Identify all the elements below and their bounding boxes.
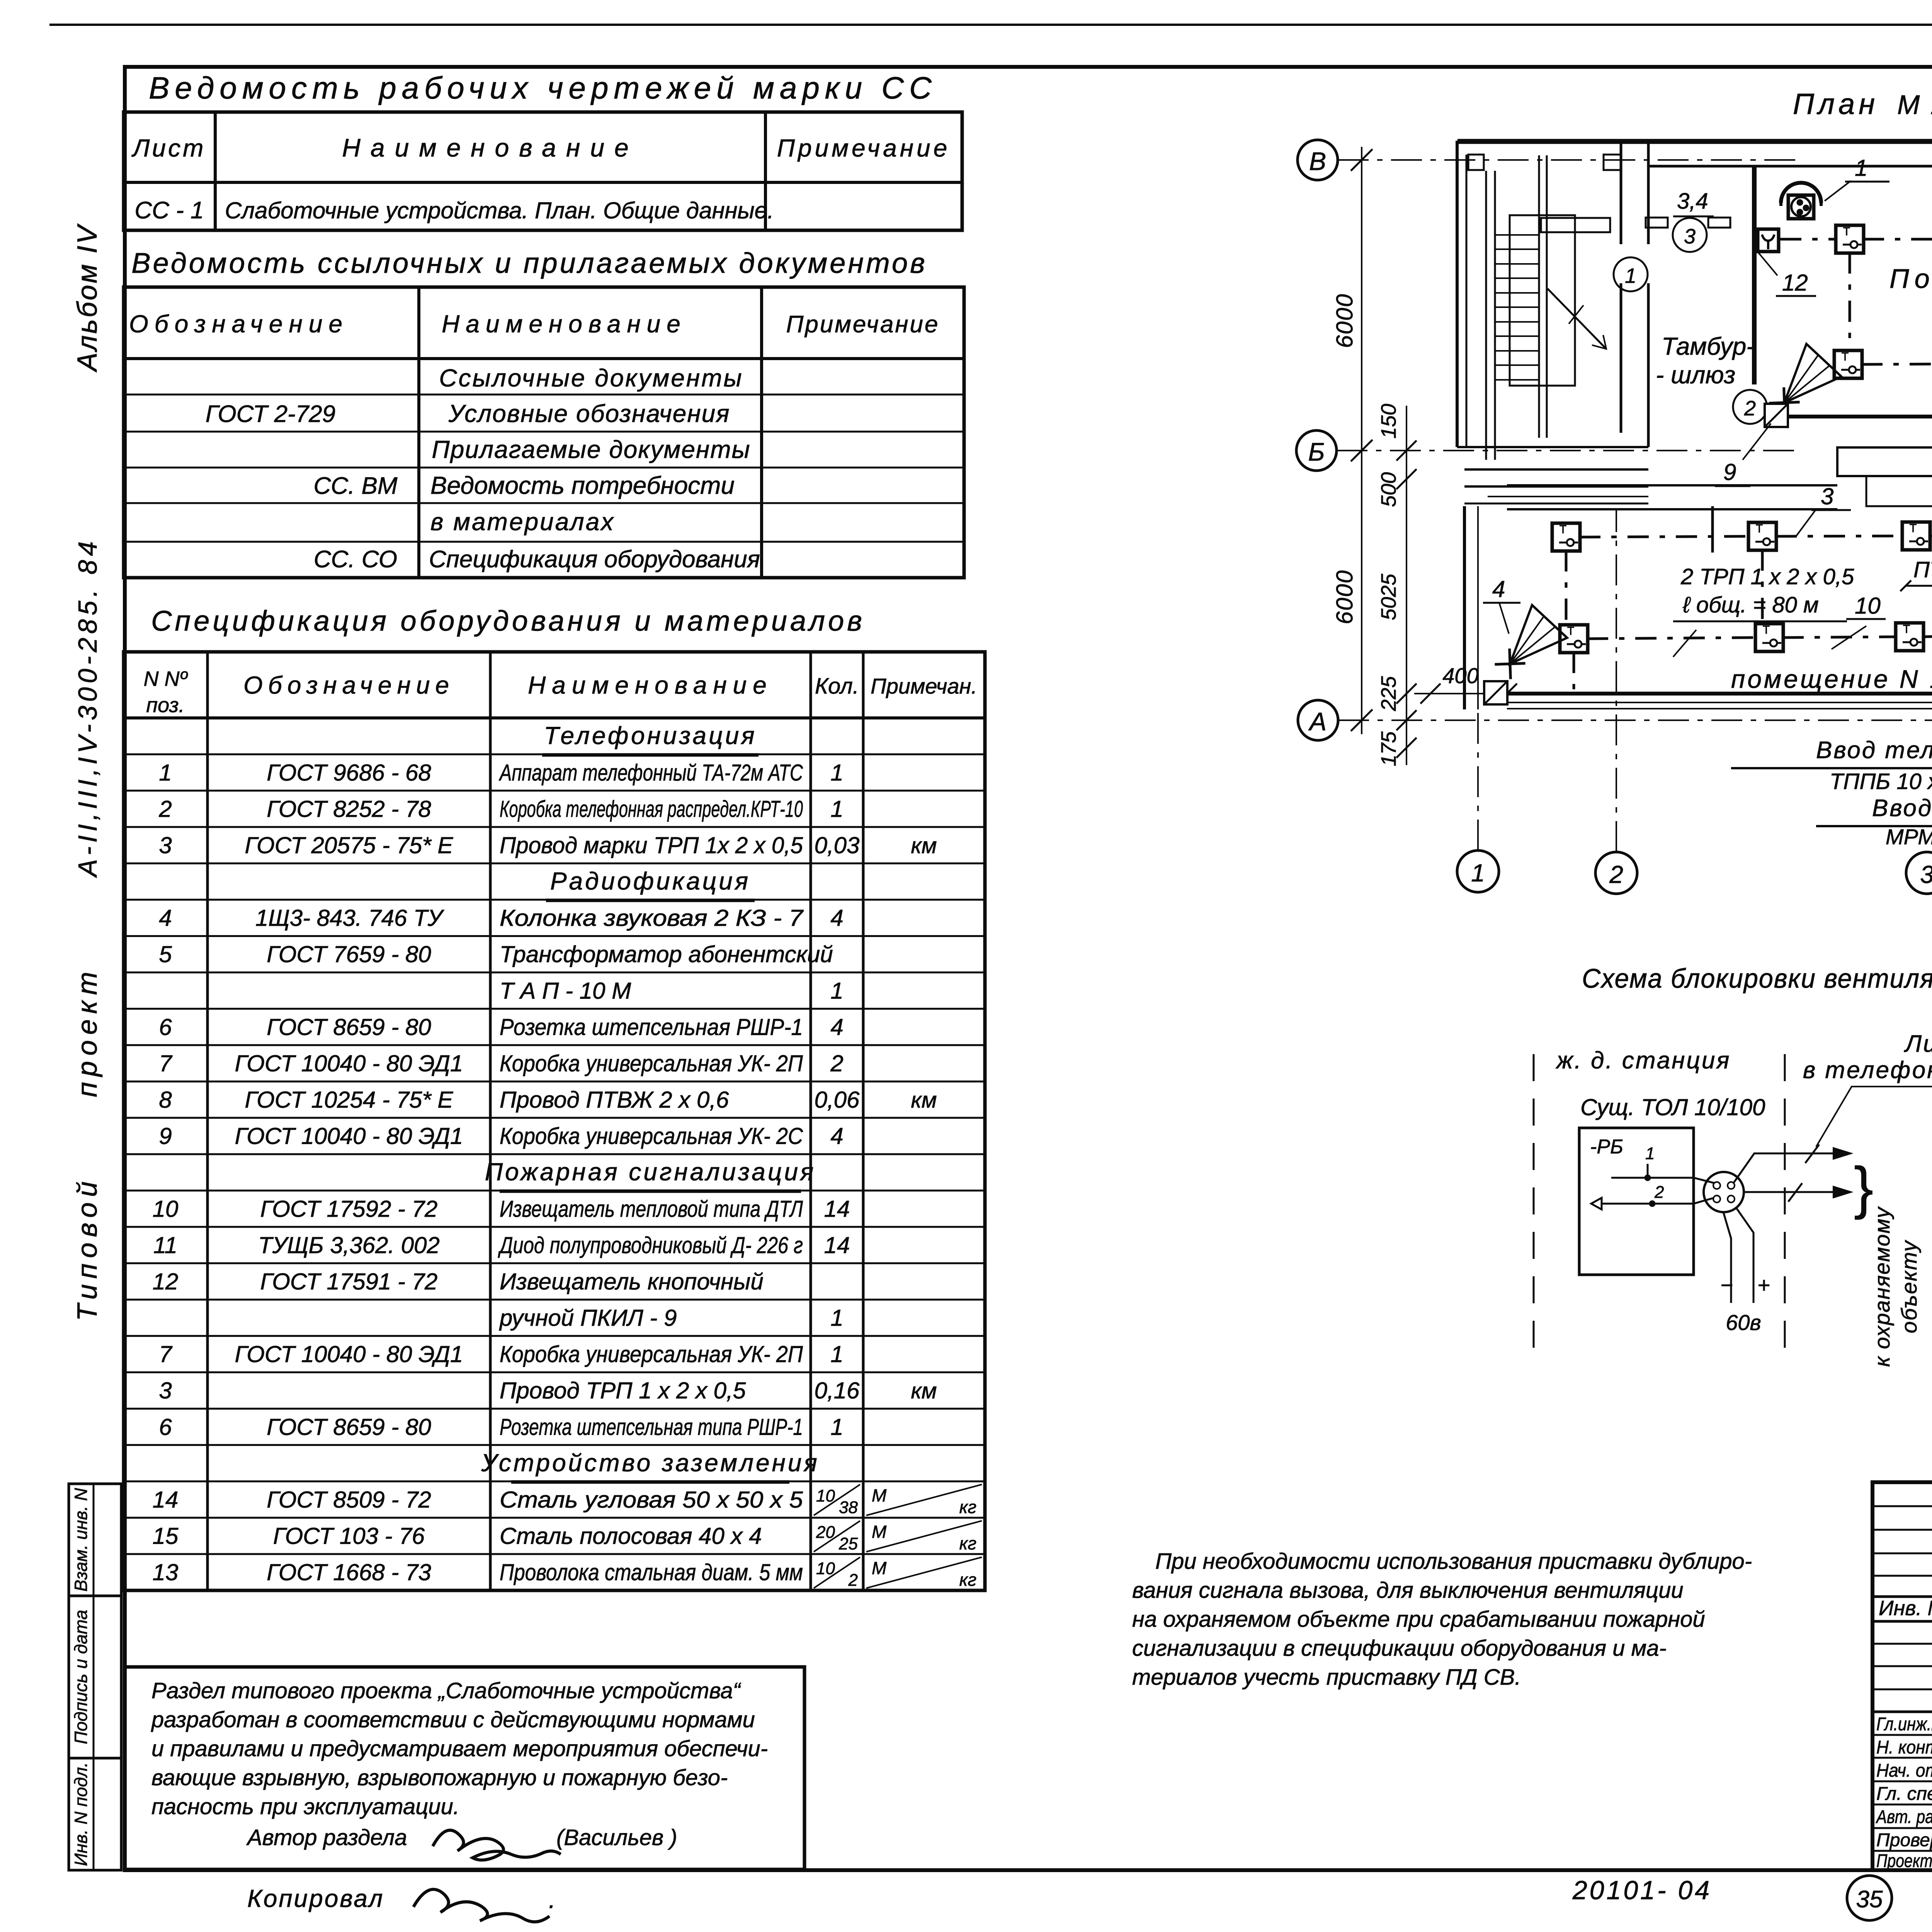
room N2 left wall [1752, 167, 1757, 384]
svg-text:Спецификация оборудования: Спецификация оборудования [429, 546, 760, 573]
svg-text:Слаботочные устройства. План.: Слаботочные устройства. План. Общие данн… [225, 197, 774, 223]
svg-text:ТППБ 10 х 2 х 0, 4: ТППБ 10 х 2 х 0, 4 [1830, 769, 1932, 794]
svg-text:Сталь полосовая 40 х 4: Сталь полосовая 40 х 4 [500, 1523, 762, 1549]
svg-text:Т: Т [1763, 624, 1770, 636]
wire [1776, 536, 1903, 536]
circled 35 [1847, 1876, 1892, 1920]
svg-text:СС - 1: СС - 1 [134, 197, 204, 224]
axis 1 circle [1457, 850, 1499, 892]
svg-text:поз.: поз. [146, 694, 184, 717]
door circle 3 [1673, 218, 1707, 252]
svg-text:ПТВЖ 2 х 0,6 - 60 м: ПТВЖ 2 х 0,6 - 60 м [1913, 557, 1932, 582]
svg-text:Обозначение: Обозначение [129, 310, 349, 338]
wire vertical from T8 [1761, 549, 1764, 623]
svg-text:кг: кг [959, 1533, 976, 1553]
svg-text:14: 14 [153, 1486, 179, 1512]
svg-text:−: − [1720, 1273, 1733, 1297]
svg-text:ТУЩБ 3,362. 002: ТУЩБ 3,362. 002 [258, 1232, 440, 1258]
svg-text:км: км [911, 1378, 937, 1403]
svg-text:1: 1 [1625, 264, 1636, 287]
svg-text:1: 1 [830, 796, 843, 822]
title block outer [1872, 1482, 1932, 1870]
svg-text:к охраняемому: к охраняемому [1870, 1206, 1894, 1367]
detector box T11 [1755, 624, 1783, 651]
station box TOL [1579, 1128, 1694, 1275]
svg-text:Наименование: Наименование [342, 133, 639, 162]
svg-text:Обозначение: Обозначение [243, 671, 454, 699]
leader 4 bottom-left [1499, 603, 1509, 634]
svg-text:Провод ТРП 1 х 2 х 0,5: Провод ТРП 1 х 2 х 0,5 [500, 1378, 746, 1403]
svg-text:ручной ПКИЛ - 9: ручной ПКИЛ - 9 [499, 1305, 677, 1331]
svg-text:1: 1 [1471, 859, 1485, 887]
junction box UK 2 [1765, 404, 1788, 427]
axis 3 circle [1906, 852, 1932, 894]
svg-text:Примечание: Примечание [777, 134, 951, 162]
svg-text:Розетка штепсельная РШР-1: Розетка штепсельная РШР-1 [500, 1014, 803, 1040]
svg-text:и правилами и предусматрива: и правилами и предусматривает мероприяти… [151, 1736, 768, 1761]
dim line vertical outer [1361, 147, 1362, 734]
svg-text:3: 3 [1920, 861, 1932, 888]
svg-text:6000: 6000 [1332, 570, 1357, 624]
svg-text:2: 2 [158, 796, 172, 822]
svg-text:ГОСТ 17591 - 72: ГОСТ 17591 - 72 [260, 1269, 438, 1294]
svg-text:5: 5 [159, 941, 172, 967]
svg-text:9: 9 [1723, 459, 1736, 485]
wire [1929, 535, 1932, 537]
detector box T9 [1902, 522, 1930, 550]
svg-text:М: М [872, 1485, 887, 1505]
svg-text:Извещатель тепловой типа ДТЛ: Извещатель тепловой типа ДТЛ [500, 1196, 803, 1222]
svg-text:35: 35 [1856, 1886, 1883, 1913]
svg-text:2: 2 [1654, 1183, 1664, 1202]
svg-text:2: 2 [1609, 861, 1623, 888]
svg-text:ГОСТ 103 - 76: ГОСТ 103 - 76 [273, 1523, 425, 1549]
svg-text:Коробка универсальная УК- 2С: Коробка универсальная УК- 2С [500, 1123, 803, 1149]
svg-text:Сущ. ТОЛ 10/100: Сущ. ТОЛ 10/100 [1580, 1094, 1765, 1120]
svg-text:38: 38 [839, 1498, 858, 1517]
connector circle [1704, 1172, 1744, 1212]
axis 3 line [1927, 851, 1927, 881]
svg-text:ГОСТ 20575 - 75* Е: ГОСТ 20575 - 75* Е [245, 832, 454, 858]
terminal 2 [1602, 1203, 1694, 1205]
svg-text:60в: 60в [1726, 1310, 1761, 1335]
svg-text:ГОСТ 10040 - 80 ЭД1: ГОСТ 10040 - 80 ЭД1 [235, 1123, 463, 1149]
axis B line [1337, 450, 1801, 451]
svg-text:- шлюз: - шлюз [1656, 361, 1735, 389]
svg-text:км: км [911, 833, 937, 858]
wire [1782, 637, 1896, 638]
svg-text:Диод полупроводниковый Д- 226: Диод полупроводниковый Д- 226 г [498, 1232, 803, 1258]
svg-text:ГОСТ 8509 - 72: ГОСТ 8509 - 72 [267, 1486, 431, 1512]
svg-text:0,06: 0,06 [815, 1087, 860, 1113]
svg-text:2: 2 [830, 1050, 843, 1076]
svg-text:Условные обозначения: Условные обозначения [448, 400, 730, 427]
detector box T10 [1560, 625, 1588, 653]
svg-text:4: 4 [1492, 576, 1505, 602]
svg-text:км: км [911, 1088, 937, 1113]
svg-text:ГОСТ 10040 - 80 ЭД1: ГОСТ 10040 - 80 ЭД1 [235, 1050, 463, 1076]
svg-text:175: 175 [1377, 731, 1400, 766]
svg-text:N Nº: N Nº [144, 667, 188, 690]
svg-text:1: 1 [1645, 1144, 1655, 1163]
svg-text:ГОСТ 8252 - 78: ГОСТ 8252 - 78 [267, 796, 431, 822]
svg-text:ГОСТ 1668 - 73: ГОСТ 1668 - 73 [267, 1560, 431, 1585]
wire vertical from T7 [1565, 550, 1568, 626]
svg-text:СС. СО: СС. СО [314, 546, 397, 573]
svg-text:М 1 : 100: М 1 : 100 [1897, 90, 1932, 120]
axis 2 line [1616, 510, 1617, 852]
svg-text:Альбом IV: Альбом IV [72, 223, 103, 372]
svg-text:Проверил: Проверил [1876, 1830, 1932, 1850]
svg-text:Ссылочные документы: Ссылочные документы [439, 364, 743, 392]
svg-text:ж. д. станция: ж. д. станция [1555, 1047, 1731, 1074]
svg-text:Радиофикация: Радиофикация [550, 867, 750, 895]
svg-text:ГОСТ 17592 - 72: ГОСТ 17592 - 72 [260, 1196, 438, 1222]
svg-text:2: 2 [848, 1571, 858, 1590]
svg-text:на охраняемом объекте при: на охраняемом объекте при срабатывании п… [1132, 1607, 1705, 1632]
lower rooms top wall band A [1507, 484, 1837, 486]
svg-text:10: 10 [153, 1196, 179, 1222]
svg-text:6: 6 [159, 1014, 172, 1040]
svg-text:1: 1 [159, 760, 172, 786]
svg-text:Копировал: Копировал [247, 1884, 384, 1912]
axis A line [1338, 719, 1932, 721]
svg-text:1: 1 [830, 1414, 843, 1440]
axis 1 line [1477, 510, 1479, 850]
tambour door stubs [1646, 218, 1668, 228]
stair block left wall [1456, 141, 1459, 447]
svg-text:ГОСТ 7659 - 80: ГОСТ 7659 - 80 [267, 941, 431, 967]
svg-text:помещение N 1: помещение N 1 [1731, 665, 1932, 693]
svg-text:М: М [872, 1522, 887, 1542]
svg-text:Коробка универсальная УК- 2П: Коробка универсальная УК- 2П [500, 1341, 803, 1367]
boundary dashed mid [1784, 1054, 1786, 1362]
axis 2 circle [1595, 852, 1637, 894]
svg-text:Примечан.: Примечан. [871, 674, 977, 698]
top inner wall line [1648, 165, 1932, 168]
svg-text:Наименование: Наименование [528, 671, 773, 699]
svg-text:Автор раздела: Автор раздела [246, 1825, 407, 1850]
thick wire N1 bottom [1508, 692, 1932, 696]
svg-text:0,16: 0,16 [815, 1378, 860, 1403]
svg-text:Розетка штепсельная типа РШР: Розетка штепсельная типа РШР-1 [500, 1414, 803, 1440]
stair rails [1485, 171, 1487, 460]
svg-text:в телефонном кабеле: в телефонном кабеле [1803, 1057, 1932, 1083]
svg-text:Ввод телефонный: Ввод телефонный [1816, 737, 1932, 764]
table small rects [1866, 476, 1932, 506]
svg-text:Типовой проект: Типовой проект [72, 966, 103, 1321]
svg-text:Проектир.: Проектир. [1876, 1851, 1932, 1871]
svg-text:Телефонизация: Телефонизация [544, 722, 757, 750]
svg-text:-РБ: -РБ [1590, 1136, 1623, 1158]
left wall lower (room N1) [1463, 506, 1466, 709]
svg-text:При необходимости использова: При необходимости использования приставк… [1155, 1549, 1752, 1574]
svg-text:кг: кг [959, 1497, 976, 1517]
wire [1579, 536, 1749, 537]
svg-text:Ведомость ссылочных и при: Ведомость ссылочных и прилагаемых докуме… [131, 247, 927, 279]
svg-text:Примечание: Примечание [786, 311, 939, 338]
svg-text:14: 14 [824, 1232, 850, 1258]
svg-text:ГОСТ 8659 - 80: ГОСТ 8659 - 80 [267, 1414, 431, 1440]
leader 3 [1796, 509, 1816, 536]
svg-text:0,03: 0,03 [815, 832, 860, 858]
svg-text:Спецификация оборудования: Спецификация оборудования и материалов [151, 605, 865, 637]
door circle 2 [1733, 390, 1767, 424]
stair half landing [1541, 218, 1610, 232]
svg-text:5025: 5025 [1377, 573, 1400, 620]
svg-text:20101- 04: 20101- 04 [1572, 1876, 1712, 1905]
svg-text:2 ТРП 1 х 2 х 0,5: 2 ТРП 1 х 2 х 0,5 [1680, 564, 1854, 589]
svg-text:вания сигнала вызова, для в: вания сигнала вызова, для выключения вен… [1132, 1578, 1684, 1603]
svg-text:Устройство заземления: Устройство заземления [481, 1449, 819, 1476]
axis A circle [1298, 700, 1338, 740]
svg-text:25: 25 [838, 1534, 858, 1553]
svg-text:Инв. N подл.: Инв. N подл. [71, 1762, 91, 1866]
thick wire loop N2 [1777, 200, 1932, 417]
dim line vertical inner [1406, 406, 1407, 765]
table 3 rows [124, 753, 985, 755]
svg-text:1: 1 [830, 978, 843, 1003]
leader 9 [1743, 423, 1771, 460]
svg-text:1Щ3- 843. 746 ТУ: 1Щ3- 843. 746 ТУ [255, 905, 445, 931]
svg-text:Проволока стальная диам. 5 м: Проволока стальная диам. 5 мм [500, 1560, 803, 1585]
svg-text:15: 15 [153, 1523, 179, 1549]
bottom-left note box [125, 1667, 804, 1869]
svg-text:12: 12 [153, 1269, 179, 1294]
svg-text:9: 9 [159, 1123, 172, 1149]
svg-text:4: 4 [830, 905, 843, 931]
svg-text:Извещатель кнопочный: Извещатель кнопочный [500, 1269, 764, 1294]
detector box T1 [1836, 225, 1864, 253]
wire into connector [1694, 1178, 1715, 1183]
svg-text:Схема блокировки вентиляци: Схема блокировки вентиляции при использо… [1582, 963, 1932, 993]
svg-text:пасность при эксплуатации: пасность при эксплуатации. [151, 1794, 459, 1819]
svg-text:План: План [1793, 88, 1879, 121]
detector box T7 [1552, 523, 1580, 551]
svg-text:Т: Т [1903, 623, 1910, 636]
wire vertical 1 [1849, 252, 1851, 351]
room N1 bottom wall double [1507, 702, 1932, 703]
battery wires 60v [1736, 1207, 1753, 1303]
svg-text:Т: Т [1910, 522, 1917, 535]
svg-text:400: 400 [1442, 663, 1478, 688]
stair door squares [1468, 155, 1484, 170]
svg-text:8: 8 [159, 1087, 172, 1113]
svg-text:объекту: объекту [1897, 1240, 1921, 1333]
svg-text:3: 3 [1821, 483, 1833, 509]
svg-text:2: 2 [1744, 397, 1756, 420]
svg-text:1: 1 [1855, 155, 1867, 181]
svg-text:Аппарат телефонный ТА-72м АТС: Аппарат телефонный ТА-72м АТС [499, 760, 803, 786]
dim 400 [1414, 693, 1507, 694]
svg-text:ℓ общ. = 80 м: ℓ общ. = 80 м [1682, 592, 1819, 617]
wire N2 bottom row [1861, 364, 1932, 364]
svg-text:.: . [549, 1886, 556, 1913]
svg-text:Помещение: Помещение [1889, 264, 1932, 294]
svg-text:МРМ 2 х 1, 2: МРМ 2 х 1, 2 [1886, 825, 1932, 849]
table 2 frame [124, 287, 964, 578]
svg-text:12: 12 [1782, 270, 1808, 296]
telephone set symbol [1781, 183, 1821, 203]
axis V line [1338, 159, 1801, 161]
svg-text:Инв. N: Инв. N [1879, 1597, 1932, 1620]
svg-text:14: 14 [824, 1196, 850, 1222]
wire N2 top row [1780, 238, 1837, 241]
wire N1 row [1587, 638, 1756, 639]
svg-text:4: 4 [830, 1123, 843, 1149]
svg-text:Пожарная сигнализация: Пожарная сигнализация [485, 1158, 816, 1186]
svg-text:3: 3 [159, 832, 172, 858]
detector box T8 [1748, 522, 1776, 550]
svg-text:Гл.инж.пр.: Гл.инж.пр. [1876, 1714, 1932, 1735]
axis V circle [1298, 140, 1338, 180]
svg-text:М: М [872, 1558, 887, 1578]
svg-text:1: 1 [830, 760, 843, 786]
svg-text:Н. контр.: Н. контр. [1876, 1737, 1932, 1758]
junction box UK 1 [1484, 681, 1507, 704]
margin stamp boxes [69, 1484, 121, 1870]
svg-text:Провод ПТВЖ 2 х 0,6: Провод ПТВЖ 2 х 0,6 [500, 1087, 729, 1113]
svg-text:1: 1 [830, 1341, 843, 1367]
svg-text:Раздел типового проекта „Сл: Раздел типового проекта „Слаботочные уст… [151, 1678, 742, 1703]
signature Vasiliev script [433, 1830, 561, 1860]
svg-text:13: 13 [153, 1560, 179, 1585]
svg-text:Провод марки ТРП 1х 2 х 0,5: Провод марки ТРП 1х 2 х 0,5 [500, 832, 803, 858]
svg-text:Линия: Линия [1904, 1031, 1932, 1057]
sheet outer border top [49, 24, 1932, 26]
table rectangle [1837, 447, 1932, 476]
svg-text:150: 150 [1377, 404, 1400, 439]
table 3 frame [124, 652, 985, 1590]
svg-text:Сталь угловая 50 х 50 х 5: Сталь угловая 50 х 50 х 5 [500, 1486, 803, 1512]
svg-text:Нач. отд.: Нач. отд. [1876, 1760, 1932, 1781]
svg-text:3,4: 3,4 [1677, 189, 1708, 214]
svg-text:Т: Т [1756, 522, 1763, 535]
stair/tambour wall column [1620, 142, 1622, 244]
svg-text:7: 7 [159, 1050, 173, 1076]
svg-text:Трансформатор абонентский: Трансформатор абонентский [500, 941, 833, 967]
stair steps [1495, 234, 1539, 236]
svg-text:В: В [1309, 147, 1326, 175]
wire upper to brace [1733, 1153, 1851, 1183]
boundary dashed left [1533, 1054, 1535, 1362]
top outer wall [1458, 139, 1932, 144]
svg-text:ГОСТ 10040 - 80 ЭД1: ГОСТ 10040 - 80 ЭД1 [235, 1341, 463, 1367]
svg-text:Коробка универсальная УК- 2П: Коробка универсальная УК- 2П [500, 1050, 803, 1076]
svg-text:ГОСТ 10254 - 75* Е: ГОСТ 10254 - 75* Е [245, 1087, 454, 1113]
svg-text:1: 1 [830, 1305, 843, 1331]
detector box T4 [1834, 350, 1862, 378]
stair block bottom [1457, 446, 1648, 448]
svg-text:3: 3 [159, 1378, 172, 1403]
svg-text:ГОСТ 8659 - 80: ГОСТ 8659 - 80 [267, 1014, 431, 1040]
svg-text:Коробка телефонная распредел.К: Коробка телефонная распредел.КРТ-10 [500, 796, 803, 822]
svg-text:Б: Б [1308, 437, 1325, 466]
svg-text:А-II,III,IV-300-285. 84: А-II,III,IV-300-285. 84 [73, 537, 102, 878]
svg-text:А: А [1308, 707, 1327, 736]
svg-text:СС. ВМ: СС. ВМ [314, 473, 398, 499]
Y-socket box item 12 [1758, 229, 1779, 252]
svg-text:11: 11 [153, 1232, 177, 1258]
svg-text:Т А П - 10 М: Т А П - 10 М [500, 978, 631, 1003]
stair diagonal arrow [1548, 289, 1606, 349]
svg-text:Авт. разд.: Авт. разд. [1875, 1807, 1932, 1827]
axis B circle [1296, 430, 1337, 471]
detector box T12 [1896, 623, 1923, 651]
leader 12 [1758, 252, 1777, 276]
svg-text:ГОСТ 2-729: ГОСТ 2-729 [206, 401, 335, 427]
svg-text:кг: кг [959, 1570, 976, 1590]
svg-text:Тамбур-: Тамбур- [1662, 332, 1755, 360]
svg-text:Т: Т [1843, 225, 1850, 238]
table 1 frame [124, 112, 962, 230]
svg-text:4: 4 [830, 1014, 843, 1040]
svg-text:500: 500 [1377, 472, 1400, 507]
svg-text:Т: Т [1842, 350, 1849, 363]
svg-text:ГОСТ 9686 - 68: ГОСТ 9686 - 68 [267, 760, 431, 786]
terminal 1 [1611, 1177, 1694, 1179]
svg-text:Ввод радио: Ввод радио [1872, 795, 1932, 821]
svg-text:Взам. инв. N: Взам. инв. N [71, 1488, 91, 1592]
svg-text:3: 3 [1684, 225, 1696, 248]
svg-text:Колонка звуковая 2 КЗ - 7: Колонка звуковая 2 КЗ - 7 [500, 905, 804, 931]
door circle 1 [1614, 257, 1648, 291]
svg-text:(Васильев ): (Васильев ) [556, 1825, 677, 1850]
svg-text:+: + [1757, 1273, 1770, 1297]
B-axis wall band [1464, 468, 1648, 471]
svg-text:Подпись и дата: Подпись и дата [71, 1610, 91, 1744]
svg-text:в материалах: в материалах [430, 508, 615, 536]
loudspeaker Gr-2 [1760, 344, 1842, 427]
wire vertical T10 down [1573, 652, 1575, 693]
svg-text:10: 10 [1855, 593, 1881, 619]
wall below B to lower room [1711, 506, 1714, 553]
title block left rows [1872, 1505, 1932, 1507]
loudspeaker Gr-3 [1485, 605, 1567, 688]
svg-text:6: 6 [159, 1414, 172, 1440]
svg-text:Т: Т [1567, 625, 1574, 638]
wire lower to brace [1744, 1191, 1851, 1193]
svg-text:Кол.: Кол. [815, 673, 859, 699]
svg-text:6000: 6000 [1332, 293, 1357, 348]
svg-text:Гл. спец.: Гл. спец. [1876, 1784, 1932, 1804]
svg-text:разработан в соответствии: разработан в соответствии с действующими… [151, 1707, 755, 1732]
svg-text:вающие взрывную, взрывопожар: вающие взрывную, взрывопожарную и пожарн… [151, 1765, 728, 1790]
svg-text:сигнализации в спецификации: сигнализации в спецификации оборудования… [1132, 1636, 1667, 1661]
svg-text:Ведомость рабочих чертежей: Ведомость рабочих чертежей марки СС [149, 71, 937, 105]
svg-text:225: 225 [1377, 676, 1400, 711]
svg-text:Лист: Лист [131, 134, 206, 162]
triangle marker [1591, 1198, 1602, 1209]
wire [1863, 238, 1932, 241]
svg-text:Прилагаемые документы: Прилагаемые документы [432, 435, 750, 463]
leader from liniya label [1816, 1087, 1932, 1151]
svg-text:4: 4 [159, 905, 172, 931]
svg-text:7: 7 [159, 1341, 173, 1367]
svg-text:Наименование: Наименование [442, 310, 687, 338]
svg-text:Т: Т [1560, 523, 1566, 536]
stair landing rect [1510, 215, 1575, 386]
svg-text:териалов учесть приставку: териалов учесть приставку ПД СВ. [1132, 1665, 1521, 1690]
wire [1923, 636, 1932, 637]
svg-text:Ведомость потребности: Ведомость потребности [430, 471, 735, 499]
